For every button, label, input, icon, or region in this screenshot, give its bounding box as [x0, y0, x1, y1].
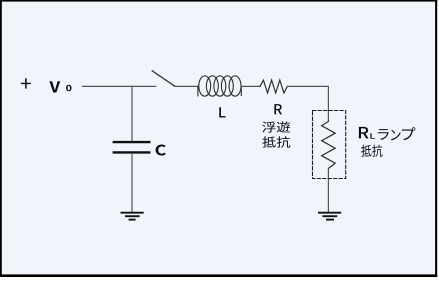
wire: switch to inductor	[174, 85, 198, 87]
label: + polarity	[21, 78, 31, 88]
resistor RL vertical zigzag	[322, 121, 336, 168]
capacitor C plates	[113, 142, 151, 152]
wire: RL to ground	[327, 169, 329, 212]
label: 0 subscript	[66, 85, 71, 92]
wire: inductor to resistor R	[241, 85, 260, 87]
ground (right)	[318, 213, 341, 220]
resistor R zigzag	[260, 80, 287, 93]
label: 抵抗 (resistance, right)	[361, 145, 371, 157]
label: V	[49, 81, 60, 92]
wire: V0 lead to switch	[83, 85, 156, 87]
wire: capacitor to ground	[131, 153, 133, 211]
label: 抵抗 (resistance, under R)	[262, 136, 276, 147]
label: L subscript of RL	[370, 133, 374, 139]
label: ランプ (lamp)	[378, 129, 389, 140]
inductor L coil	[198, 76, 241, 96]
wire: R to RL branch corner	[287, 86, 328, 121]
wire: capacitor branch from node	[131, 86, 133, 141]
dashed box around RL	[313, 111, 346, 179]
label: C	[156, 145, 166, 156]
label: L	[219, 107, 225, 117]
switch S blade	[152, 71, 174, 86]
ground (left)	[121, 213, 144, 220]
label: RL	[359, 127, 369, 139]
label: R	[274, 104, 282, 114]
label: 浮遊 (stray)	[262, 121, 275, 132]
